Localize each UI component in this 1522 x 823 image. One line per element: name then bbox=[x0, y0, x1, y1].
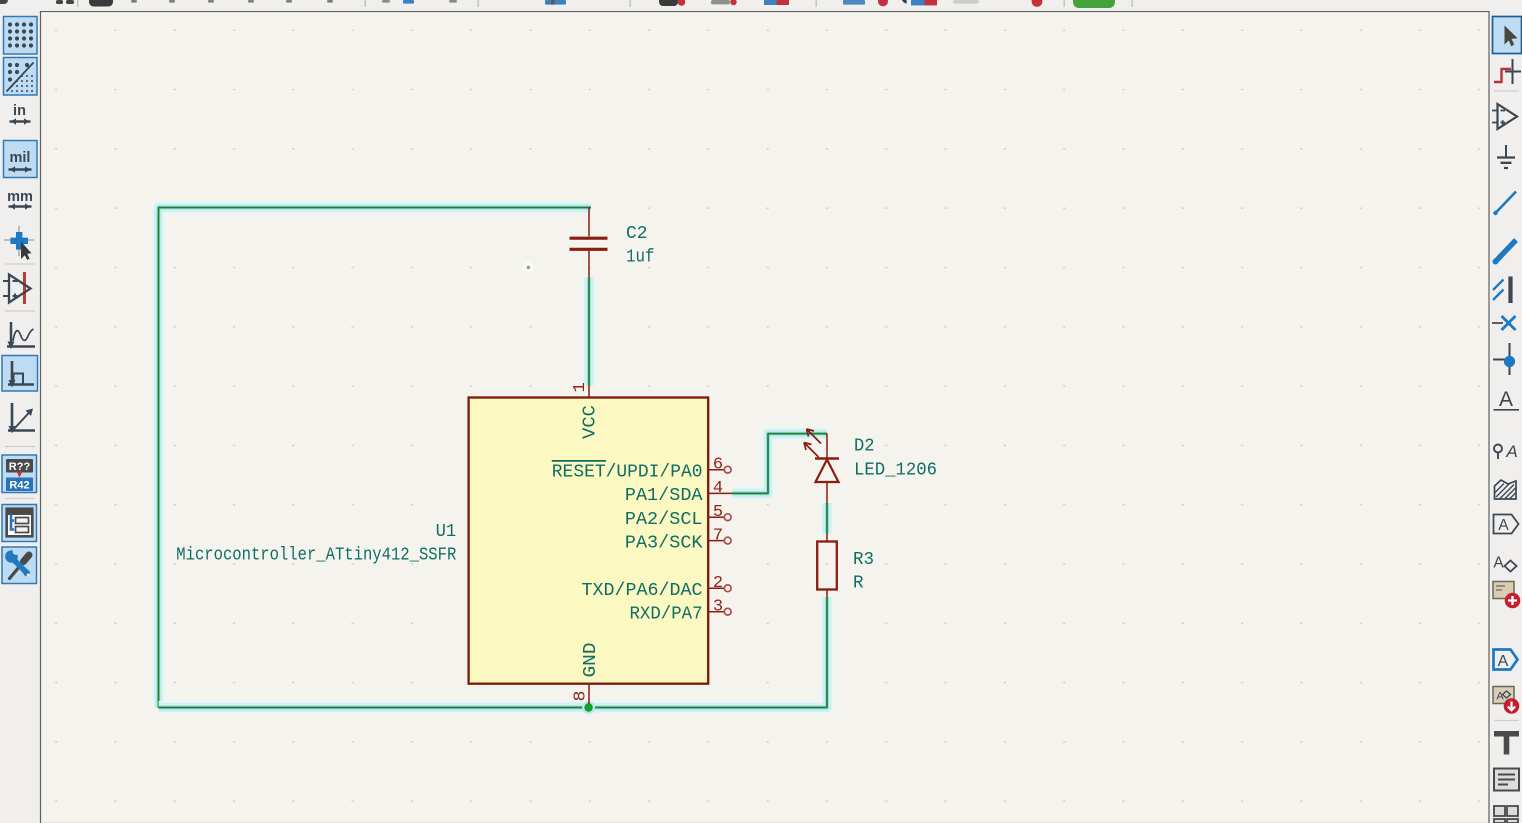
svg-text:8: 8 bbox=[572, 691, 591, 702]
button: add global label bbox=[1494, 515, 1519, 535]
button: probe current bbox=[8, 403, 35, 434]
svg-text:R??: R?? bbox=[9, 461, 31, 473]
wire C2 to U1 pin 1 bbox=[583, 278, 596, 386]
svg-text:1uf: 1uf bbox=[626, 247, 655, 268]
button: select tool (active) bbox=[1493, 17, 1522, 54]
svg-text:RXD/PA7: RXD/PA7 bbox=[630, 604, 703, 625]
button: units inches bbox=[10, 103, 31, 125]
svg-text:5: 5 bbox=[713, 503, 723, 522]
button: probe waveform bbox=[7, 322, 35, 349]
svg-text:in: in bbox=[13, 103, 26, 119]
button: probe voltage (active) bbox=[2, 356, 38, 392]
svg-text:6: 6 bbox=[713, 456, 723, 475]
svg-text:LED_1206: LED_1206 bbox=[854, 460, 937, 481]
wire R3 to GND bottom rail bbox=[159, 597, 828, 708]
svg-text:A: A bbox=[1493, 555, 1504, 572]
svg-text:2: 2 bbox=[713, 574, 723, 593]
button: import hierarchical label bbox=[1493, 687, 1519, 714]
junction at U1 pin 8 / GND rail bbox=[582, 701, 595, 714]
svg-text:7: 7 bbox=[713, 526, 723, 545]
button: add junction bbox=[1493, 343, 1515, 375]
svg-text:Microcontroller_ATtiny412_SSFR: Microcontroller_ATtiny412_SSFR bbox=[176, 544, 456, 565]
U1 pin 1 VCC (top) bbox=[571, 382, 601, 439]
U1 pin 6 RESET/UPDI/PA0 bbox=[552, 456, 731, 483]
svg-text:mil: mil bbox=[10, 150, 31, 166]
button: highlight net bbox=[1494, 59, 1521, 84]
svg-text:RESET/UPDI/PA0: RESET/UPDI/PA0 bbox=[552, 462, 703, 483]
U1 pin 8 GND (bottom) bbox=[572, 643, 601, 705]
button: hierarchy navigator (active) bbox=[2, 505, 37, 542]
svg-text:PA1/SDA: PA1/SDA bbox=[625, 485, 703, 506]
button: add table (partial at bottom) bbox=[1494, 806, 1518, 823]
IC U1 body Microcontroller_ATtiny412_SSFR bbox=[469, 398, 709, 684]
resistor R3 bbox=[817, 534, 837, 598]
U1 pin 7 PA3/SCK bbox=[625, 526, 731, 553]
svg-text:1: 1 bbox=[571, 382, 590, 392]
button: import sheet pin bbox=[1494, 650, 1518, 671]
button: show grid (active) bbox=[4, 17, 38, 55]
button: add bus bbox=[1493, 240, 1517, 265]
button: grid override (active) bbox=[4, 58, 38, 96]
svg-text:A: A bbox=[1505, 442, 1517, 461]
button: add text bbox=[1494, 731, 1519, 755]
button: units mm bbox=[7, 189, 33, 210]
button: add sheet bbox=[1493, 582, 1520, 609]
U1 pin 2 TXD/PA6/DAC bbox=[582, 574, 732, 601]
button: simulator (op-amp) bbox=[3, 272, 31, 304]
capacitor C2 bbox=[570, 208, 608, 278]
svg-text:R: R bbox=[853, 573, 864, 594]
button: schematic setup (active) bbox=[2, 547, 37, 584]
svg-text:R42: R42 bbox=[9, 480, 29, 492]
svg-text:TXD/PA6/DAC: TXD/PA6/DAC bbox=[582, 580, 703, 601]
button: add symbol bbox=[1492, 104, 1517, 129]
svg-text:U1: U1 bbox=[436, 521, 457, 542]
U1 pin 3 RXD/PA7 bbox=[630, 598, 732, 625]
svg-text:VCC: VCC bbox=[580, 405, 601, 439]
wire VCC net: left + top segment (glow) bbox=[159, 208, 592, 708]
button: no connect flag bbox=[1492, 316, 1516, 330]
wire U1 pin 4 to D2 anode bbox=[732, 434, 827, 494]
button: add wire bbox=[1493, 192, 1516, 216]
wire D2 cathode to R3 bbox=[821, 503, 834, 534]
button: add text box bbox=[1494, 769, 1519, 791]
svg-text:A: A bbox=[1498, 653, 1509, 670]
U1 pin 4 PA1/SDA bbox=[625, 479, 732, 506]
svg-text:mm: mm bbox=[7, 189, 33, 205]
button: full cursor bbox=[4, 226, 34, 260]
button: add net label bbox=[1494, 388, 1520, 411]
button: wire to bus entry bbox=[1493, 277, 1511, 304]
U1 pin 5 PA2/SCL bbox=[625, 503, 731, 530]
svg-text:C2: C2 bbox=[626, 223, 648, 244]
svg-text:A: A bbox=[1499, 388, 1513, 411]
svg-text:R3: R3 bbox=[853, 549, 874, 570]
svg-text:3: 3 bbox=[713, 598, 723, 617]
svg-text:D2: D2 bbox=[854, 436, 875, 457]
button: add power port (ground) bbox=[1497, 145, 1515, 168]
svg-text:PA3/SCK: PA3/SCK bbox=[625, 532, 703, 553]
top toolbar clipped icon bottoms bbox=[0, 0, 1522, 11]
button: add rule area bbox=[1495, 480, 1517, 499]
svg-text:A: A bbox=[1496, 691, 1504, 703]
button: annotate (active) bbox=[2, 455, 37, 493]
svg-text:GND: GND bbox=[580, 643, 601, 678]
cursor position marker bbox=[523, 262, 534, 273]
svg-text:A: A bbox=[1498, 517, 1509, 534]
LED D2 bbox=[804, 429, 839, 503]
button: units mils (active) bbox=[4, 141, 38, 178]
svg-text:4: 4 bbox=[713, 479, 723, 498]
svg-text:PA2/SCL: PA2/SCL bbox=[625, 509, 703, 530]
button: add hierarchical label bbox=[1493, 555, 1516, 572]
button: add net class directive bbox=[1494, 442, 1518, 461]
